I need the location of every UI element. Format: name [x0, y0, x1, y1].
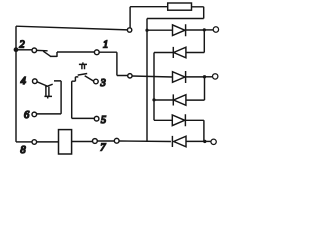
switch S1 blade (break contact) — [43, 51, 50, 56]
terminal circle 6 — [32, 112, 37, 117]
wire bottom rail to diode D6 — [119, 140, 171, 143]
wire D4 anode — [186, 99, 205, 101]
contact K4 fixed bar — [45, 84, 53, 87]
wire junction to right terminal 1 — [204, 29, 213, 31]
node 2 junction dot — [14, 47, 19, 52]
terminal circle 7 — [93, 139, 98, 144]
terminal circle 3 — [94, 79, 99, 84]
module pin circle (bottom left) — [114, 138, 119, 143]
svg-text:5: 5 — [101, 115, 106, 126]
svg-text:3: 3 — [100, 78, 106, 89]
wire D1 to junction — [186, 29, 205, 31]
wire bus to diode D1 — [147, 29, 173, 31]
wire node1 to relay pin (middle-left) — [99, 52, 127, 75]
wire D2 cathode to mid bus — [154, 52, 173, 54]
contact K4 blade — [37, 82, 47, 86]
terminal circle 5 — [94, 116, 99, 121]
diode D5 — [172, 114, 185, 126]
relay coil K (box) — [59, 130, 72, 154]
svg-text:7: 7 — [100, 142, 106, 153]
junction dot mid bus / D4 — [152, 98, 155, 101]
junction dot D6 anode — [203, 140, 206, 143]
wire D3 junction down to D4 — [204, 77, 206, 100]
wire junction to right terminal 2 — [205, 76, 213, 78]
svg-text:4: 4 — [21, 76, 27, 87]
wire terminal8 to coil — [37, 141, 59, 143]
switch S1 step wire — [50, 52, 94, 57]
wire D2 anode — [186, 52, 204, 54]
contact K3 anchor fork — [79, 62, 87, 69]
wire module pin to diode D3 — [132, 76, 172, 77]
junction dot D1 cathode — [203, 28, 206, 31]
wire contact4 to terminal 6 — [37, 81, 61, 114]
terminal circle 8 — [32, 140, 37, 145]
diode D3 — [173, 71, 186, 83]
module pin circle (top) — [127, 28, 131, 32]
terminal circle 4 — [33, 79, 38, 84]
wire D4 cathode to mid bus — [154, 99, 173, 101]
terminal circle 1 — [94, 50, 99, 55]
wire node2 to terminal 2 — [18, 49, 32, 51]
contact K3 fixed bar — [78, 74, 88, 76]
wire junction to right terminal 3 — [205, 140, 211, 142]
svg-text:8: 8 — [20, 145, 26, 156]
diode D6 — [172, 136, 186, 147]
wire frame top (to relay pin at right) — [16, 26, 127, 30]
wire D1 junction down to D2 — [203, 30, 205, 53]
resistor R1 — [168, 3, 192, 10]
wire contact3 to terminal 5 — [72, 77, 95, 119]
contact K3 blade — [85, 76, 94, 81]
right terminal circle (bottom) — [211, 139, 216, 144]
right terminal circle (top) — [213, 27, 218, 32]
wire D3 to junction — [186, 76, 205, 78]
svg-text:1: 1 — [103, 40, 108, 51]
contact K4 anchor fork — [44, 87, 52, 99]
junction dot D3 cathode — [203, 75, 206, 78]
junction dot bus/D1 — [145, 29, 148, 32]
wire D5 cathode down to D6 row — [185, 120, 204, 141]
diode D1 — [173, 24, 186, 36]
wire resistor to anode bus — [147, 7, 204, 19]
diode D2 — [173, 47, 186, 58]
right terminal circle (middle) — [213, 74, 218, 79]
svg-text:6: 6 — [24, 110, 30, 121]
wire D6 anode to junction — [186, 140, 205, 142]
svg-text:2: 2 — [19, 40, 25, 51]
wire mid bus to diode D5 — [154, 119, 172, 121]
wire bottom rail left — [16, 141, 32, 143]
module pin circle (middle left) — [128, 74, 132, 78]
wire pin up to resistor R1 — [130, 7, 168, 28]
mid bus vertical — [153, 53, 155, 121]
diode D4 — [173, 94, 186, 105]
wire terminal7 to module pin — [97, 140, 114, 142]
terminal circle 2 — [32, 48, 37, 53]
wire coil to terminal 7 — [72, 141, 93, 143]
wire terminal2 to switch S1 — [37, 49, 48, 51]
wire frame left vertical — [15, 26, 17, 142]
anode bus vertical — [146, 19, 148, 142]
